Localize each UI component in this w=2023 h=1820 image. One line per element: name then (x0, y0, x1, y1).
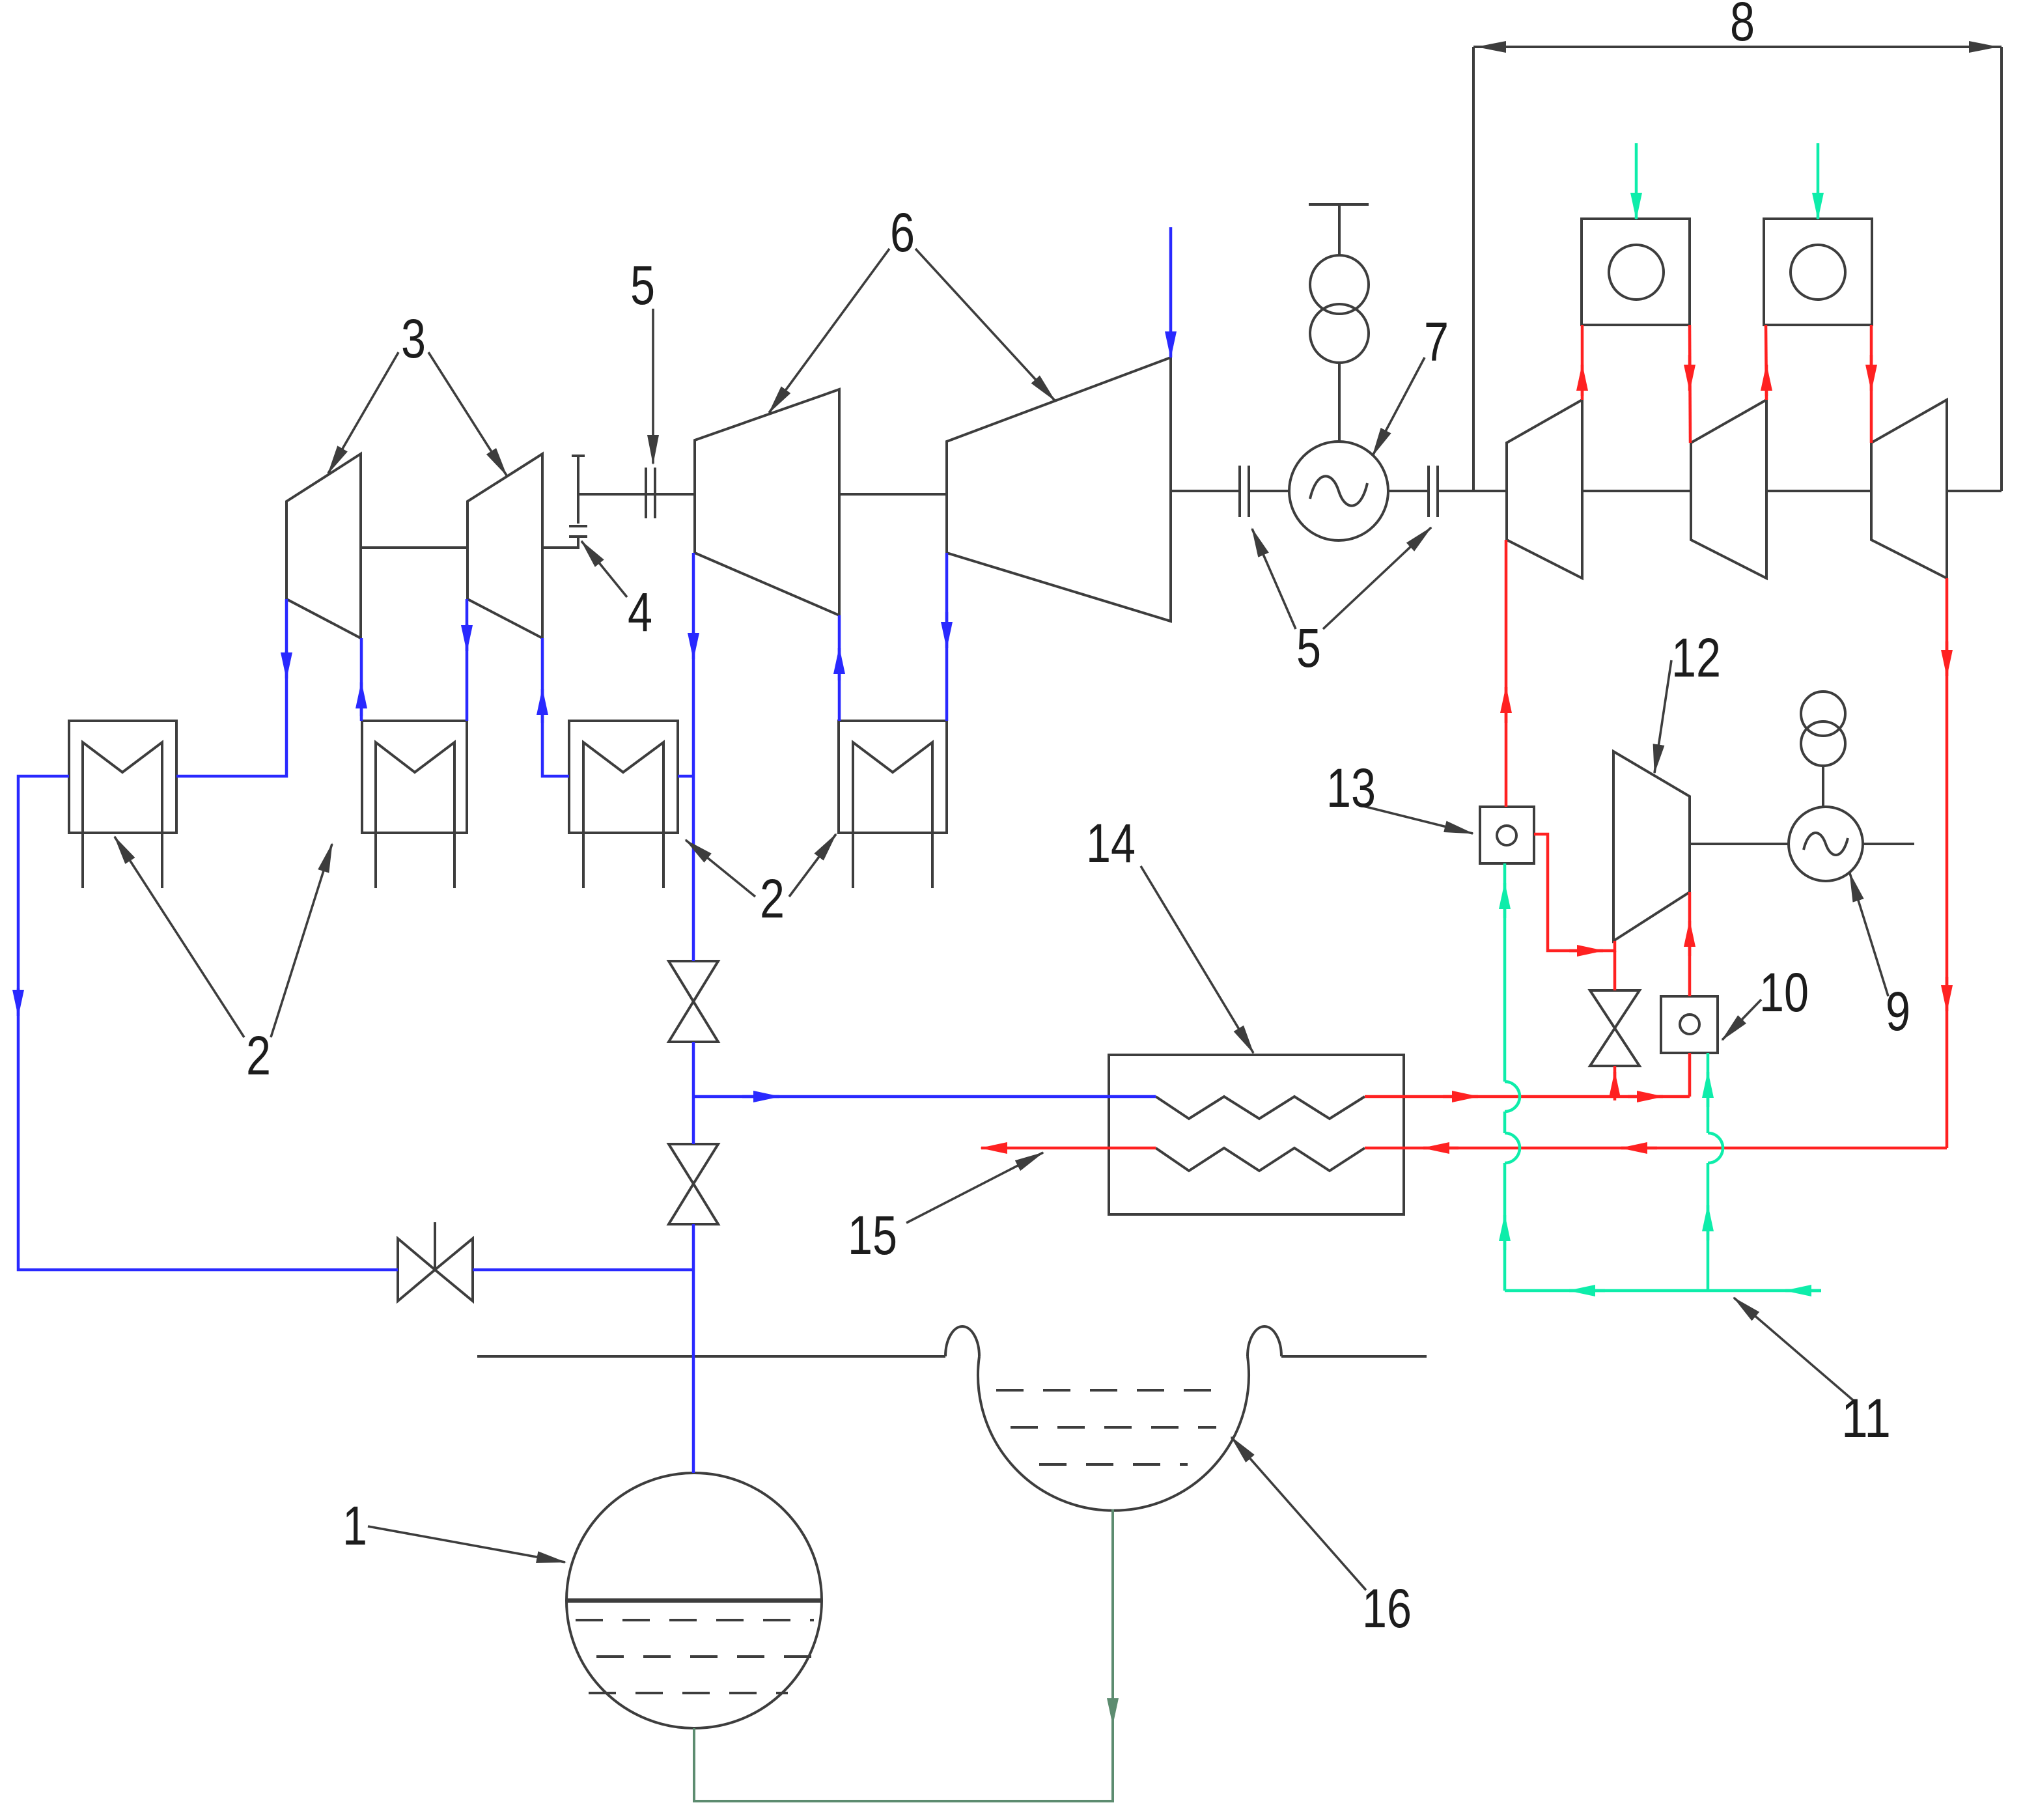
cooler box 8b-8c (1764, 219, 1872, 325)
shaft turbine 12 to generator 9 (1690, 843, 1789, 845)
heater 2d M (853, 742, 932, 888)
svg-text:2: 2 (760, 868, 785, 929)
svg-text:10: 10 (1759, 962, 1809, 1023)
turbine 12 (1613, 751, 1690, 941)
svg-text:11: 11 (1841, 1388, 1891, 1449)
wire red 8c drain down (1946, 578, 1949, 1148)
thrust bearing 4 bars (569, 535, 587, 538)
dimension 8 left arrow (1477, 46, 1576, 48)
svg-text:8: 8 (1730, 0, 1755, 52)
wire cyan riser to pump 13 with hops (1503, 1163, 1507, 1291)
condenser 16 bowl (978, 1356, 1249, 1511)
leader label 3 left (328, 352, 398, 473)
wire red cooler 2 to 8c inlet (1870, 325, 1873, 443)
leader label 15 (906, 1153, 1043, 1223)
transformer of generator 7 (1310, 255, 1369, 314)
svg-text:6: 6 (890, 202, 915, 263)
wire green condensate from condenser 16 to tank 1 (694, 1509, 1113, 1801)
svg-text:15: 15 (848, 1205, 897, 1266)
svg-text:2: 2 (246, 1025, 271, 1086)
svg-text:14: 14 (1086, 813, 1136, 874)
turbine 6b (LP cylinder) (947, 357, 1171, 621)
leader label 6 right (915, 249, 1055, 400)
shaft between 3a and 3b (361, 546, 467, 549)
wire blue branch to heat exchanger 14 (693, 1095, 1156, 1099)
condenser 16 water dashes (996, 1389, 1231, 1392)
svg-text:5: 5 (1296, 617, 1321, 679)
wire blue between valves A and B (692, 1042, 695, 1144)
shaft 8b-8c (1766, 490, 1871, 492)
cooler box 8a-8b (1582, 219, 1690, 325)
wire red pump 10 to hot line (1688, 1053, 1692, 1097)
turbine 8b (right block) (1691, 400, 1766, 578)
wire red hot supply from HX14 (1365, 1095, 1690, 1099)
generator 7 circle (1289, 441, 1388, 540)
leader label 6 left (769, 249, 889, 413)
condenser 16 right rim hump (1248, 1326, 1281, 1356)
wire blue 3a exhaust to heater 2a (176, 599, 286, 776)
svg-text:13: 13 (1326, 757, 1376, 819)
valve A on downcomer (669, 961, 718, 1001)
shaft coupling 5d to turbine 8a (1438, 490, 1507, 492)
leader label 1 (368, 1526, 565, 1562)
heater 2c M (583, 742, 663, 888)
wire red network outlet 15 (981, 1147, 1156, 1150)
svg-text:12: 12 (1671, 627, 1721, 688)
pump box 10 (1661, 996, 1718, 1053)
wire red turbine 12 exhaust to pump 10 (1688, 892, 1692, 996)
leader label 10 (1722, 1000, 1761, 1040)
leader label 2b left (686, 840, 755, 897)
leader label 2a right (271, 844, 332, 1037)
wire blue heater 2c outlet to downcomer (678, 775, 693, 778)
wire blue 3a right to heater 2b top (360, 638, 363, 721)
leader label 5b right (1323, 527, 1431, 629)
dimension 8 right arrow (1901, 46, 1998, 48)
shaft 8a-8b (1582, 490, 1691, 492)
pump box 13 (1480, 807, 1534, 863)
coupling 5d bars (1427, 466, 1430, 517)
generator 9 circle (1789, 807, 1863, 881)
leader label 5b left (1252, 529, 1296, 629)
dimension 8 right extension line (2000, 47, 2003, 491)
tank 1 circle (566, 1473, 822, 1728)
leader label 16 (1231, 1437, 1366, 1590)
svg-text:16: 16 (1362, 1578, 1412, 1639)
transformer of generator 9 (1801, 692, 1845, 736)
wire red pump 13 to turbine 12 inlet (1534, 834, 1615, 951)
wire blue 3b right to heater 2c (542, 638, 569, 776)
wire blue heater 2a to bypass (18, 776, 398, 1270)
tank 1 water level (568, 1599, 820, 1603)
wire blue main inlet to turbine 6b (1169, 227, 1173, 357)
datum line left of condenser 16 (477, 1355, 945, 1358)
coupling 5c bars (1238, 466, 1241, 517)
wire blue 6b exhaust to heater 2d top right (945, 553, 949, 721)
shaft stub 3b to thrust symbol 4 (542, 538, 578, 548)
wire blue bypass valve to junction (473, 1268, 693, 1272)
shaft 8c to right extension (1947, 490, 2002, 492)
generator 9 sine (1804, 833, 1848, 855)
wire red turbine 12 feed valve branch (1613, 951, 1617, 990)
coupling 5a bars (645, 468, 647, 518)
valve C on bypass line (398, 1239, 435, 1301)
leader label 7 (1373, 357, 1425, 456)
datum line right of condenser 16 (1281, 1355, 1427, 1358)
shaft coupling 5c to generator 7 (1249, 490, 1289, 492)
wire red 8a drain to pump 13 (1505, 540, 1508, 807)
leader label 2b right (789, 834, 836, 897)
wire cyan inlet to cooler 1 (1635, 143, 1638, 219)
valve on turbine 12 feed (1590, 990, 1639, 1028)
heat exchanger 14 lower coil (1156, 1148, 1365, 1171)
leader label 2a left (115, 837, 244, 1037)
condenser 16 left rim hump (945, 1326, 979, 1356)
leader label 12 (1654, 660, 1671, 773)
wire blue 3b exhaust to heater 2b top right (466, 599, 469, 721)
heat exchanger 14 upper coil (1156, 1097, 1365, 1119)
heater 2b M (376, 742, 454, 888)
wire cyan inlet to cooler 2 (1817, 143, 1820, 219)
wire cyan supply header (1505, 1289, 1821, 1293)
svg-text:4: 4 (628, 581, 652, 643)
wire red 8b top to cooler 2 (1766, 325, 1766, 400)
leader label 3 right (428, 352, 507, 475)
heater 2b box (362, 721, 467, 833)
turbine 6a (IP cylinder) (695, 389, 839, 615)
svg-text:3: 3 (401, 308, 426, 369)
shaft stub right of generator 9 (1863, 843, 1914, 845)
turbine 3b (HP cylinder) (467, 454, 542, 638)
leader label 5a (652, 309, 654, 464)
wire red cooler 1 to 8b inlet (1690, 325, 1690, 443)
svg-text:7: 7 (1424, 311, 1449, 372)
heater 2d box (839, 721, 947, 833)
heat exchanger 14 box (1109, 1055, 1404, 1214)
tank 1 water dashes (576, 1619, 814, 1621)
turbine 3a (HP cylinder) (286, 454, 361, 638)
svg-text:5: 5 (630, 255, 655, 316)
turbine 8a (right block) (1507, 400, 1582, 578)
leader label 11 (1734, 1298, 1854, 1401)
thrust bearing 4 vertical (577, 456, 579, 524)
leader label 13 (1361, 805, 1473, 833)
svg-text:9: 9 (1886, 981, 1910, 1042)
wire blue 6a right to heater 2d top left (838, 615, 841, 721)
wire blue 6a exhaust downcomer (692, 553, 695, 961)
generator 7 sine (1310, 476, 1367, 505)
shaft 4 to coupling 5a (578, 493, 695, 496)
wire red return to HX14 lower coil (1365, 1147, 1947, 1150)
leader label 14 (1141, 866, 1253, 1053)
dimension 8 line (1473, 46, 2002, 48)
turbine 8c (right block) (1871, 400, 1947, 578)
wire blue valve B to tank 1 (692, 1224, 695, 1473)
wire red 8a top to cooler 1 (1581, 325, 1584, 400)
svg-text:1: 1 (342, 1495, 367, 1556)
heater 2a box (69, 721, 176, 833)
valve B on downcomer (669, 1144, 718, 1184)
shaft 6b to coupling 5c (1171, 490, 1240, 492)
heater 2a M (83, 742, 162, 888)
leader label 9 (1850, 873, 1888, 996)
wire cyan riser to pump 10 with hop (1707, 1163, 1710, 1291)
shaft generator 7 to coupling 5d (1388, 490, 1429, 492)
dimension 8 left extension line (1472, 47, 1475, 491)
heater 2c box (569, 721, 678, 833)
shaft between 6a and 6b (839, 493, 947, 496)
leader label 4 (581, 541, 627, 597)
